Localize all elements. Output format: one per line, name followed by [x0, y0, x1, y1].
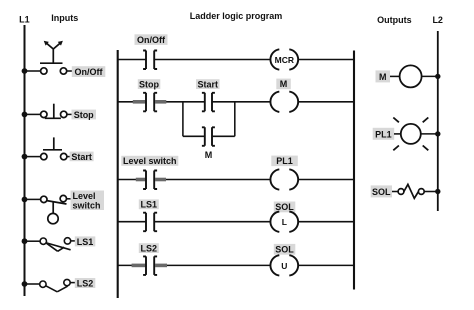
pushbutton NO Start — [41, 137, 67, 159]
svg-text:PL1: PL1 — [276, 156, 293, 166]
value label Level switch (input) — [71, 191, 105, 211]
wire L1 rail to LS1 — [25, 240, 41, 242]
svg-text:switch: switch — [73, 201, 101, 211]
wire parallel branch bottom right — [212, 135, 235, 137]
svg-text:LS1: LS1 — [77, 237, 94, 247]
value label On/Off (rung 1) — [135, 34, 168, 45]
value label LS2 (rung 5) — [139, 243, 159, 253]
svg-text:Stop: Stop — [74, 110, 94, 120]
wire parallel branch bottom left — [183, 135, 205, 137]
value label Stop (input) — [72, 110, 97, 120]
svg-text:LS2: LS2 — [77, 278, 94, 288]
contact Level switch (XIC) — [143, 171, 157, 190]
svg-text:Stop: Stop — [139, 79, 159, 89]
ladder left rail — [117, 50, 119, 298]
value label SOL (coil rung 4) — [274, 202, 296, 213]
value label Level switch (rung 3) — [121, 156, 178, 166]
value label LS2 (input) — [75, 278, 96, 288]
contact Start (XIC) — [202, 93, 215, 112]
coil MCR — [270, 49, 298, 69]
value label Start (rung 2) — [196, 79, 220, 89]
value label LS1 (input) — [75, 236, 96, 246]
value label LS1 (rung 4) — [139, 199, 159, 209]
value label PL1 (coil rung 3) — [271, 156, 298, 167]
node junction dot LS1 row — [22, 238, 28, 244]
wire LS1 contact to SOL L coil — [154, 221, 270, 223]
wire Start contact to M coil — [212, 101, 270, 103]
limit switch LS1 — [40, 238, 71, 252]
svg-text:M: M — [379, 72, 387, 82]
wire M coil to right rail — [298, 101, 354, 103]
ladder right rail — [353, 51, 355, 290]
svg-text:M: M — [205, 150, 213, 160]
value label M (coil rung 2) — [276, 79, 291, 90]
left power rail L1 — [24, 25, 26, 296]
wire L1 rail to LS2 — [25, 283, 40, 285]
wire MCR coil to right rail — [298, 59, 354, 61]
value label Stop (rung 2) — [138, 79, 161, 89]
coil SOL L — [270, 212, 298, 232]
node junction dot Start row — [22, 154, 28, 160]
node junction dot On/Off row — [22, 68, 28, 74]
value label PL1 (output) — [373, 128, 395, 140]
value label SOL (output) — [371, 185, 392, 197]
svg-text:SOL: SOL — [275, 202, 294, 212]
contact LS1 (XIC) — [143, 213, 157, 232]
value label SOL (coil rung 5) — [274, 244, 296, 255]
highlighted wire segment left of LS2 contact — [132, 264, 146, 268]
svg-text:LS2: LS2 — [141, 243, 158, 253]
coil SOL U — [270, 255, 298, 275]
svg-text:Start: Start — [198, 79, 219, 89]
wire SOL L coil to right rail — [298, 221, 354, 223]
node junction dot M output — [435, 74, 440, 79]
float level switch — [41, 195, 67, 223]
wire rung 4 left — [118, 221, 146, 223]
wire L1 rail to level switch — [25, 198, 41, 200]
wire rung 3 left — [118, 179, 146, 181]
wire SOL label to solenoid — [392, 191, 398, 193]
svg-text:L1: L1 — [19, 15, 30, 25]
svg-text:Level switch: Level switch — [123, 156, 177, 166]
wire rung 1 right to MCR coil — [154, 59, 270, 61]
wire rung 2 left — [118, 101, 146, 103]
svg-text:SOL: SOL — [372, 187, 391, 197]
svg-text:Start: Start — [71, 152, 92, 162]
svg-text:On/Off: On/Off — [137, 35, 166, 45]
svg-text:L2: L2 — [432, 15, 443, 25]
highlighted wire segment right of Stop contact — [155, 100, 166, 104]
wire L1 rail to On/Off switch — [25, 70, 41, 72]
wire motor to L2 rail — [421, 75, 438, 77]
wire LS1 to label — [71, 240, 76, 242]
wire L1 rail to Start button — [25, 156, 41, 158]
wire parallel branch left vertical — [182, 101, 184, 136]
node junction dot PL1 output — [435, 131, 440, 136]
svg-text:L: L — [282, 217, 287, 227]
node junction dot LS2 row — [22, 281, 28, 287]
wire PL1 coil to right rail — [298, 179, 354, 181]
solenoid SOL — [398, 184, 424, 198]
highlighted wire segment left of Stop contact — [133, 100, 146, 104]
wire rung 1 left — [118, 59, 146, 61]
wire Stop button to label — [67, 113, 73, 115]
wire solenoid to L2 rail — [424, 191, 438, 193]
contact M seal-in (XIC) — [202, 127, 215, 146]
value label On/Off (input) — [72, 66, 106, 77]
node junction dot Stop row — [22, 112, 28, 118]
wire level switch to label — [66, 198, 71, 200]
svg-text:On/Off: On/Off — [75, 67, 104, 77]
svg-text:U: U — [281, 261, 287, 271]
pilot lamp PL1 — [393, 118, 428, 151]
wire LS2 to label — [70, 282, 75, 284]
svg-text:MCR: MCR — [275, 55, 294, 65]
selector switch On/Off — [40, 41, 67, 74]
limit switch LS2 — [40, 279, 70, 291]
wire LS2 contact to SOL U coil — [154, 264, 270, 266]
svg-text:Level: Level — [73, 191, 96, 201]
wire PL1 label to lamp — [394, 133, 401, 135]
highlighted wire segment right of Level switch contact — [155, 178, 166, 182]
value label Start (input) — [70, 152, 94, 162]
contact Stop (XIC) — [143, 93, 157, 112]
wire parallel branch right vertical — [234, 101, 236, 136]
coil M — [270, 92, 298, 112]
wire lamp to L2 rail — [421, 133, 438, 135]
svg-text:SOL: SOL — [275, 244, 294, 254]
pushbutton NC Stop — [41, 104, 67, 119]
svg-text:Inputs: Inputs — [51, 13, 78, 23]
svg-text:Outputs: Outputs — [377, 15, 412, 25]
wire M label to motor — [390, 75, 400, 77]
wire Start button to label — [67, 156, 71, 158]
highlighted wire segment right of LS2 contact — [155, 264, 167, 268]
value label M (output) — [376, 70, 391, 82]
wire Stop contact to Start contact — [154, 101, 204, 103]
right power rail L2 — [437, 31, 439, 211]
wire SOL U coil to right rail — [298, 264, 354, 266]
svg-text:PL1: PL1 — [375, 129, 392, 139]
wire Level switch contact to PL1 coil — [154, 179, 270, 181]
wire On/Off switch to label — [67, 70, 73, 72]
svg-text:Ladder logic program: Ladder logic program — [190, 11, 283, 21]
motor M — [400, 65, 422, 87]
svg-text:M: M — [280, 79, 288, 89]
contact LS2 (XIC) — [143, 256, 157, 275]
wire rung 5 left — [118, 264, 146, 266]
coil PL1 — [270, 169, 298, 189]
wire L1 rail to Stop button — [25, 113, 41, 115]
node junction dot Level switch row — [22, 197, 28, 203]
svg-text:LS1: LS1 — [141, 200, 158, 210]
highlighted wire segment left of Level switch contact — [136, 178, 146, 182]
node junction dot SOL output — [435, 189, 440, 194]
contact On/Off (XIC) — [143, 51, 157, 70]
